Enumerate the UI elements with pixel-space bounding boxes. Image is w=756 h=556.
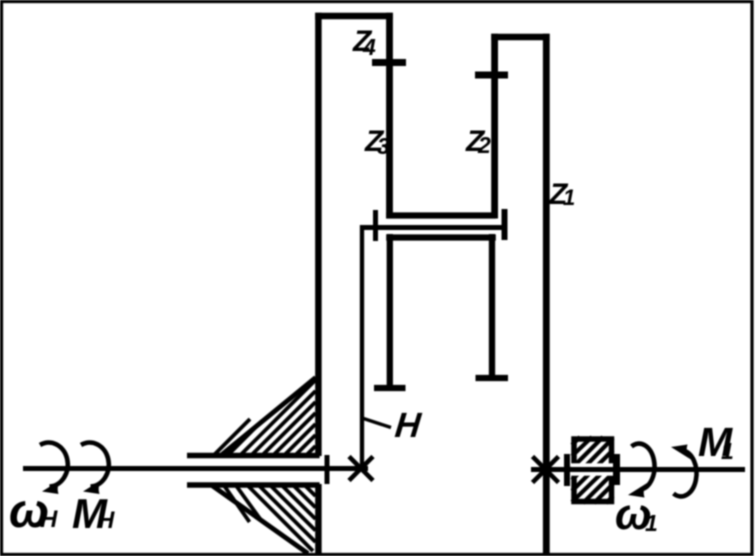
shaft of gears z4/z3 (386, 13, 393, 219)
svg-text:1: 1 (721, 438, 734, 464)
svg-text:4: 4 (362, 34, 376, 60)
gear block z4: top bar (315, 13, 393, 20)
gear z2 mesh foot (476, 375, 509, 381)
gear z4 mesh tick (372, 59, 406, 66)
svg-text:1: 1 (645, 510, 658, 536)
gear z2 mesh tick (475, 72, 508, 79)
svg-text:3: 3 (377, 133, 390, 159)
housing lower horizontal line (187, 482, 320, 488)
gear z2 lower stem (489, 234, 495, 377)
svg-text:1: 1 (563, 185, 575, 210)
ground hatch lower triangle (224, 486, 316, 552)
planet block bottom bar (386, 212, 496, 218)
gear z3 mesh foot (374, 385, 406, 391)
gear block z1/z2: top bar (491, 34, 549, 41)
bearing block on shaft z1 (565, 437, 625, 503)
carrier bearing pin left (373, 210, 378, 241)
white relief band across bearing for shaft (571, 463, 614, 475)
rotation arrow M_H (81, 443, 109, 487)
left housing column upper segment (315, 13, 322, 456)
bearing tick left (564, 454, 570, 486)
X joint right (gear z1 to shaft) (533, 457, 559, 483)
carrier bearing pin right (502, 209, 508, 240)
svg-text:2: 2 (477, 132, 491, 158)
shaft of gear z2 (491, 34, 498, 219)
housing upper horizontal line (187, 453, 320, 459)
gear z3 stem (387, 234, 393, 387)
svg-text:H: H (40, 506, 58, 533)
bearing tick right (613, 454, 620, 485)
svg-text:H: H (393, 406, 423, 445)
rotation arrow omega_1 (632, 444, 655, 490)
output shaft axis right segment (531, 467, 745, 472)
svg-text:H: H (97, 507, 115, 534)
ground upper hypotenuse (222, 378, 316, 455)
X joint left (carrier to shaft) (349, 457, 373, 481)
rotation arrow omega_H (40, 443, 68, 487)
shaft bearing tick at housing (325, 455, 330, 484)
carrier H bar (361, 225, 506, 230)
shaft of gear z1 (543, 34, 550, 556)
ground hatch upper triangle (214, 380, 316, 456)
left housing column lower segment (315, 484, 322, 553)
ground lower hypotenuse (212, 486, 308, 554)
input shaft axis left segment (23, 466, 368, 471)
lower gear pair top bar (386, 234, 496, 240)
carrier arm H (360, 225, 364, 468)
H label leader line (364, 419, 392, 428)
rotation arrow M_1 (arrowhead at top) (674, 451, 697, 497)
